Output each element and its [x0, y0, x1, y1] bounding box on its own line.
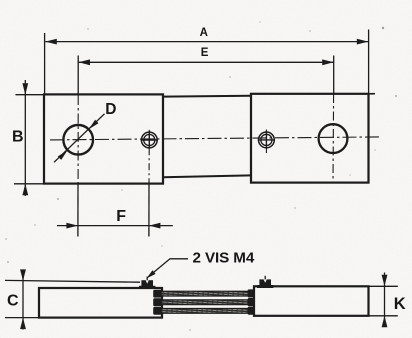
middle resistive bar (top view) — [163, 96, 251, 177]
right terminal block (top view) — [251, 94, 369, 183]
label C — [7, 293, 19, 310]
right screw vertical centerline ticks — [265, 130, 267, 154]
svg-text:2 VIS M4: 2 VIS M4 — [193, 249, 255, 266]
dimension C extension lines — [5, 280, 140, 317]
resistive plates (side view, hatched) — [161, 291, 250, 313]
svg-text:K: K — [394, 295, 406, 313]
dimension B extension lines — [14, 95, 45, 184]
svg-text:E: E — [201, 47, 209, 59]
right hole vertical centerline — [332, 56, 335, 182]
dimension C line and arrows — [20, 269, 26, 329]
label B — [12, 129, 24, 146]
horizontal centerline — [50, 137, 381, 140]
label E — [201, 47, 209, 59]
dimension A line — [45, 39, 368, 45]
right screw M4 (top view) — [258, 131, 275, 148]
dimension E line — [79, 59, 334, 65]
svg-text:A: A — [200, 27, 208, 39]
screw M4 left (side view) — [139, 277, 155, 289]
left hole — [63, 125, 93, 155]
left terminal block (top view) — [44, 94, 163, 183]
label D — [105, 101, 116, 118]
svg-text:D: D — [105, 101, 116, 118]
left hole vertical centerline — [77, 56, 79, 237]
right hole — [319, 124, 348, 153]
dimension K line and arrows — [382, 273, 388, 328]
screw M4 right (side view) — [257, 276, 273, 288]
plate end clamps left — [153, 290, 162, 315]
dimension A extension lines — [45, 30, 369, 96]
label 2 VIS M4 — [193, 249, 255, 266]
dimension F line and arrows — [57, 223, 173, 229]
leader 2 VIS M4 — [146, 259, 188, 279]
svg-text:B: B — [12, 129, 24, 146]
corner overshoot — [369, 93, 376, 95]
dimension D leader line — [54, 114, 105, 163]
left screw M4 (top view) — [141, 131, 158, 148]
label A — [200, 27, 208, 39]
plate end clamps right — [248, 289, 255, 314]
dimension B line and arrows — [22, 80, 28, 196]
svg-text:F: F — [116, 208, 126, 225]
svg-text:C: C — [7, 293, 19, 310]
label K — [394, 295, 406, 313]
label F — [116, 208, 126, 225]
right block (side view) — [254, 286, 369, 316]
dimension K extension lines — [369, 286, 398, 316]
left screw vertical centerline — [148, 130, 150, 237]
left block (side view) — [39, 288, 162, 318]
